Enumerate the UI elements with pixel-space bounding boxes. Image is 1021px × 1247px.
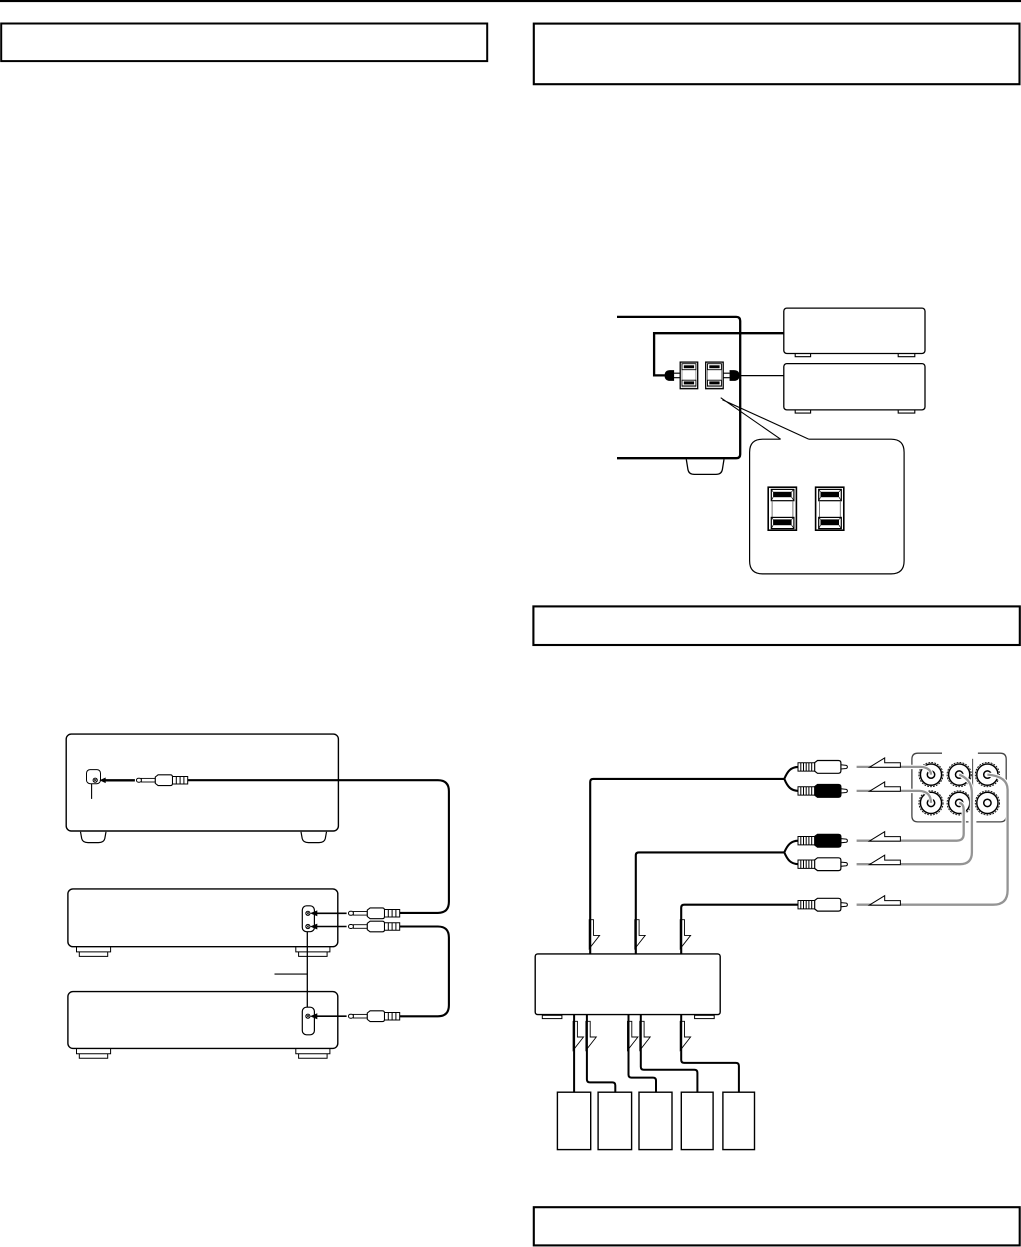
component A left foot — [795, 354, 810, 357]
label pointer line — [275, 973, 308, 975]
speaker cord 2 — [587, 1015, 615, 1093]
control jack hole — [93, 778, 97, 782]
component B box — [784, 364, 925, 410]
callout pointer wedge — [721, 398, 809, 440]
flag arrow output 3 — [628, 1021, 638, 1050]
speaker box 1 — [557, 1092, 590, 1149]
arrow into tape deck jack — [317, 1015, 347, 1017]
speaker cord 1 — [573, 1015, 575, 1093]
AC outlet 2 on panel — [706, 362, 724, 389]
mini plug into cd jack 2 — [349, 921, 400, 932]
component A box — [784, 308, 925, 353]
control jack on receiver — [87, 770, 101, 784]
large AC outlet 2 in bubble — [816, 487, 844, 530]
title box right column middle — [533, 606, 1019, 645]
cd jack 1 — [306, 911, 310, 915]
audio cord grey to jack L3 — [857, 775, 1008, 905]
panel divider line — [972, 759, 974, 791]
phono jack R line-3 unused — [975, 791, 999, 815]
interconnect cable between cd and tape deck — [306, 932, 308, 1007]
RCA plug black row 3 — [798, 834, 847, 847]
mini plug into receiver — [137, 775, 188, 786]
flag arrow into box input 1 — [589, 920, 599, 949]
signal flow arrow row 5 — [869, 896, 900, 905]
jack pointer line — [91, 784, 93, 799]
tape deck jack — [306, 1014, 310, 1018]
large AC outlet 1 in bubble — [768, 487, 796, 530]
AC plug right — [730, 370, 740, 381]
component A right foot — [898, 354, 915, 357]
phono jack L line-1 — [919, 763, 943, 787]
phono jack L line-3 — [975, 763, 999, 787]
signal flow arrow row 1 — [869, 758, 900, 767]
signal flow arrow row 3 — [869, 832, 900, 841]
Y junction pair 2 — [784, 841, 798, 865]
speaker box 5 — [723, 1092, 755, 1149]
title box right column bottom — [534, 1207, 1020, 1245]
component B right foot — [898, 410, 915, 413]
adaptor box left foot — [542, 1015, 562, 1018]
phono jack R line-2 — [947, 791, 971, 815]
signal flow arrow row 2 — [869, 782, 900, 791]
RCA plug black row 2 — [798, 785, 847, 798]
adaptor box — [535, 954, 720, 1015]
audio cord grey to jack L1 — [857, 767, 931, 775]
cd player right foot — [296, 947, 330, 956]
flag arrow output 5 — [680, 1021, 690, 1050]
amplifier jack panel section left — [912, 753, 969, 822]
tape deck unit box — [68, 992, 338, 1049]
flag arrow output 4 — [640, 1021, 650, 1050]
AC plug left — [665, 370, 675, 381]
cd player left foot — [77, 947, 111, 956]
amplifier foot — [686, 459, 724, 474]
AC outlet 1 on panel — [680, 362, 698, 389]
phono jack L line-2 — [947, 763, 971, 787]
speaker cord 4 — [641, 1015, 698, 1093]
page top rule — [0, 0, 1021, 2]
phono jack R line-1 — [919, 791, 943, 815]
amplifier rear panel outline — [617, 317, 740, 458]
component B left foot — [795, 410, 810, 413]
flag arrow output 1 — [573, 1021, 583, 1050]
adaptor box right foot — [695, 1015, 715, 1018]
speaker cord 3 — [629, 1015, 657, 1093]
arrow into receiver jack — [105, 779, 135, 781]
arrow into cd jack 1 — [317, 913, 347, 915]
AC plug left pins — [674, 373, 680, 378]
RCA plug white row 5 — [798, 898, 847, 911]
title box left column — [1, 24, 487, 62]
control jack plate on tape deck — [302, 1007, 314, 1035]
power cord to component A — [654, 333, 784, 375]
signal flow arrow row 4 — [869, 855, 900, 864]
black trunk cord pair 2 — [636, 852, 785, 954]
Y junction pair 1 — [784, 767, 798, 791]
control jack plate on cd player — [302, 906, 314, 932]
flag arrow output 2 — [586, 1021, 596, 1050]
mini plug into tape deck — [349, 1011, 400, 1022]
flag arrow into box input 2 — [635, 920, 645, 949]
remote cable C — [400, 927, 449, 1017]
cd jack 2 — [306, 924, 310, 928]
RCA plug white row 1 — [798, 761, 847, 774]
grey cable casings — [857, 767, 1008, 905]
arrow into cd jack 2 — [317, 926, 347, 928]
tape deck left foot — [77, 1049, 111, 1058]
speaker box 3 — [639, 1092, 672, 1149]
receiver left foot — [81, 832, 107, 843]
mini plug into cd jack 1 — [349, 908, 400, 919]
receiver unit box — [66, 734, 338, 831]
power cord to component B — [740, 375, 784, 377]
speaker box 4 — [681, 1092, 713, 1149]
remote cable A — [188, 780, 449, 913]
audio cord grey to jack R1 — [857, 791, 931, 803]
speaker cord 5 — [681, 1015, 739, 1093]
tape deck right foot — [296, 1049, 330, 1058]
RCA plug white row 4 — [798, 858, 847, 871]
title box right column top — [534, 24, 1020, 85]
flag arrow into box input 3 — [680, 920, 690, 949]
amplifier jack panel section right — [976, 753, 1006, 822]
callout bubble — [750, 439, 905, 574]
black trunk cord pair 1 — [590, 779, 784, 954]
cd player unit box — [68, 889, 338, 947]
audio cord grey to jack R2 — [857, 803, 964, 841]
AC plug right pins — [723, 373, 729, 378]
receiver right foot — [301, 832, 327, 843]
black cord single — [681, 905, 798, 954]
audio cord grey to jack L2 — [857, 775, 972, 865]
speaker box 2 — [598, 1092, 632, 1149]
